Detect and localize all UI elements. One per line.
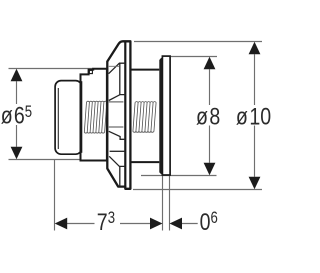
svg-text:ø 10: ø 10 — [236, 103, 271, 131]
svg-text:ø 8: ø 8 — [196, 102, 220, 130]
